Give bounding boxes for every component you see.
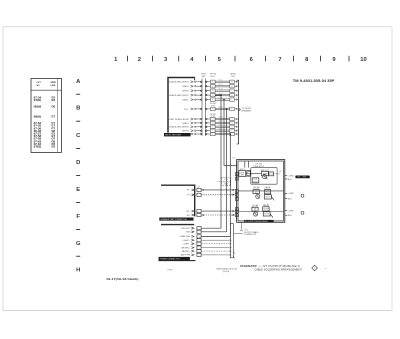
svg-text:TP-1: TP-1 <box>184 109 189 111</box>
J3 pins and labels <box>180 227 194 257</box>
regulator box A1 <box>239 168 246 177</box>
J3 wires <box>201 228 231 256</box>
channel 1 sub-assembly box <box>251 168 277 185</box>
module label bar <box>244 220 273 223</box>
svg-text:MOD: MOD <box>253 181 258 183</box>
bulkhead connector J1/P1 <box>201 73 207 136</box>
svg-text:E: E <box>76 187 80 193</box>
svg-text:67-56: 67-56 <box>219 88 223 90</box>
bias box U2 <box>268 172 273 176</box>
svg-text:SP -: SP - <box>187 215 191 217</box>
svg-text:BLACK-RED (WHT): BLACK-RED (WHT) <box>169 94 188 97</box>
svg-text:CR102: CR102 <box>265 192 270 194</box>
svg-text:G: G <box>76 241 81 247</box>
svg-text:2: 2 <box>138 57 141 63</box>
svg-text:B: B <box>212 86 213 88</box>
svg-text:SP +: SP + <box>186 211 191 213</box>
harness wire v2 <box>224 100 237 166</box>
filter element A2 <box>247 170 251 176</box>
svg-text:+ RED: + RED <box>288 176 295 178</box>
module case ground note <box>240 222 259 236</box>
svg-text:LIGHT -: LIGHT - <box>183 244 191 246</box>
svg-text:CONNECTOR: CONNECTOR <box>244 234 257 236</box>
svg-text:LIGHT SPEED BULB: LIGHT SPEED BULB <box>168 119 189 121</box>
svg-text:OUT 3: OUT 3 <box>264 214 269 216</box>
svg-text:CR103: CR103 <box>263 209 268 211</box>
title end squiggle <box>324 267 326 271</box>
ch3 speaker symbol <box>301 208 304 220</box>
ch1 output + terminal <box>285 176 294 178</box>
P1 wire name labels group B <box>168 119 189 133</box>
svg-text:PRI VOLT: PRI VOLT <box>181 228 191 230</box>
svg-text:67-64: 67-64 <box>219 124 223 126</box>
output box ch3 <box>263 212 273 218</box>
svg-text:(RED): (RED) <box>183 123 189 125</box>
svg-text:MS3106E-14S-2S: MS3106E-14S-2S <box>217 268 238 270</box>
svg-text:67-59: 67-59 <box>219 107 223 109</box>
svg-text:H: H <box>231 123 232 125</box>
svg-text:BLK: BLK <box>288 215 292 217</box>
svg-text:F: F <box>232 109 233 111</box>
output mod box <box>252 178 259 184</box>
figure title line 2 <box>254 268 303 271</box>
test point TP102 <box>252 204 259 212</box>
svg-text:+ RED: + RED <box>288 210 295 212</box>
amp box U1 <box>261 169 269 176</box>
connector P1 cable outline <box>168 78 195 133</box>
svg-text:NO: NO <box>37 85 41 87</box>
svg-text:(WHT): (WHT) <box>182 91 189 93</box>
svg-text:L: L <box>212 134 213 136</box>
svg-text:LINE: LINE <box>51 85 56 87</box>
channel 3 wire <box>238 211 283 213</box>
svg-text:(WHT): (WHT) <box>182 131 189 133</box>
TM number heading <box>293 79 335 83</box>
module input pins <box>235 173 238 217</box>
svg-text:SPEAKER: SPEAKER <box>241 110 251 113</box>
svg-text:67(8): 67(8) <box>34 99 42 102</box>
svg-text:F: F <box>76 214 80 220</box>
bulkhead contact dots <box>200 81 207 135</box>
twisted pair wires <box>215 81 230 135</box>
connector J2 outline <box>161 185 200 216</box>
svg-text:ST OUTPUT MODULE ASSY: ST OUTPUT MODULE ASSY <box>245 220 269 223</box>
diode CR103 <box>263 203 270 211</box>
svg-text:67-55: 67-55 <box>219 84 223 86</box>
diode CR102 <box>264 186 271 194</box>
ch2 speaker symbol <box>301 190 304 202</box>
svg-text:67(8): 67(8) <box>34 146 42 149</box>
svg-text:8: 8 <box>314 268 315 270</box>
output box ch2 <box>264 195 274 201</box>
svg-text:TP -: TP - <box>187 195 191 197</box>
connector J3 label bar <box>159 257 190 261</box>
speaker connector strip <box>230 224 235 259</box>
svg-text:D: D <box>76 160 80 166</box>
terminal board TB1 column <box>210 73 217 135</box>
svg-text:BLACK-RED (WHT): BLACK-RED (WHT) <box>169 126 188 129</box>
output module enclosure <box>237 160 285 223</box>
J3 terminal boxes <box>197 227 201 257</box>
svg-text:METER +: METER + <box>181 247 191 249</box>
ch3 output + terminal <box>285 210 294 212</box>
svg-text:67-63: 67-63 <box>219 121 223 123</box>
strip label leader <box>234 232 243 234</box>
svg-text:BLK: BLK <box>288 198 292 200</box>
svg-text:7: 7 <box>278 57 281 63</box>
svg-text:H: H <box>76 267 80 273</box>
harness wire v3 <box>226 109 228 232</box>
right destination bracket <box>237 80 241 144</box>
svg-text:POWER CONNECTOR: POWER CONNECTOR <box>160 259 180 261</box>
svg-text:(19-16): (19-16) <box>223 271 230 273</box>
svg-text:67-62: 67-62 <box>219 117 223 119</box>
svg-text:B: B <box>76 105 80 111</box>
harness wire v1 <box>215 95 221 228</box>
terminal board TB2 column <box>230 73 236 135</box>
svg-text:TM 9-4931-505-04 35P: TM 9-4931-505-04 35P <box>293 79 335 83</box>
TB pair tag group B <box>210 114 217 118</box>
TB2 pin arrows <box>235 81 238 135</box>
svg-text:CABLE SOLDERING ARRANGEMENT: CABLE SOLDERING ARRANGEMENT <box>254 268 303 271</box>
svg-text:69(9): 69(9) <box>34 116 42 119</box>
module corner designator C1 <box>232 158 235 160</box>
connector P1 label bar <box>164 133 191 137</box>
svg-text:67-65: 67-65 <box>219 132 223 134</box>
TB pair tag row 6 <box>210 103 217 107</box>
svg-text:WIRE: WIRE <box>51 82 57 84</box>
svg-text:E: E <box>212 99 213 101</box>
bracket label TO RIGHT SPEAKER <box>241 108 251 113</box>
svg-text:E: E <box>231 99 232 101</box>
J2 wires to module <box>201 189 235 216</box>
svg-text:LIGHT +: LIGHT + <box>183 240 192 242</box>
svg-text:(RED): (RED) <box>183 100 189 102</box>
svg-text:BLACK-RED (WHT): BLACK-RED (WHT) <box>169 81 188 84</box>
P1 wire name labels group A <box>169 81 189 111</box>
svg-text:H: H <box>212 123 213 125</box>
svg-text:F: F <box>212 109 213 111</box>
ch1 output - terminal <box>285 179 292 181</box>
svg-text:GND: GND <box>186 232 191 234</box>
connector J3 outline <box>159 225 196 261</box>
ch2 output + terminal <box>285 193 294 195</box>
transistor Q102 <box>256 194 260 198</box>
J2 pins and labels <box>186 189 194 217</box>
svg-text:CHAS GND: CHAS GND <box>180 235 191 238</box>
page number <box>106 277 139 281</box>
svg-text:68(8W): 68(8W) <box>34 106 42 109</box>
transistor Q103 <box>254 212 258 216</box>
ch1 feed wires <box>238 161 262 173</box>
test point TP101 <box>253 186 260 194</box>
svg-text:METER -: METER - <box>182 251 191 253</box>
svg-text:(RED): (RED) <box>183 86 189 88</box>
figure title line 1 <box>240 265 300 268</box>
part number note <box>217 268 238 273</box>
zone ruler tick separators <box>128 56 350 62</box>
svg-text:67-58: 67-58 <box>219 97 223 99</box>
svg-text:B: B <box>231 86 232 88</box>
svg-text:NO 1: NO 1 <box>269 174 273 176</box>
svg-text:SPEAKER TEST CONNECTOR: SPEAKER TEST CONNECTOR <box>161 218 188 221</box>
svg-text:TAG: TAG <box>224 183 228 186</box>
FO sheet number <box>168 270 174 272</box>
transistor Q101 <box>263 175 268 180</box>
svg-text:10: 10 <box>360 57 366 63</box>
ch2 output - terminal <box>285 198 292 200</box>
svg-text:W1 P1 TEST SET: W1 P1 TEST SET <box>165 135 182 137</box>
svg-text:19-17(19-18 blank): 19-17(19-18 blank) <box>106 277 139 281</box>
svg-text:FO-8: FO-8 <box>168 270 174 272</box>
svg-text:67-34: 67-34 <box>219 79 223 81</box>
wire number tags <box>219 79 223 133</box>
wires P1 to terminal column <box>196 82 210 134</box>
ch3 output - terminal <box>285 215 292 217</box>
zone ruler numbers 1-10 <box>114 57 367 63</box>
speaker label plate <box>295 173 309 184</box>
svg-text:CKT: CKT <box>37 82 42 84</box>
P1 pin contacts <box>191 81 197 135</box>
harness junction dots <box>220 94 231 135</box>
svg-text:+ RED: + RED <box>288 193 295 195</box>
svg-text:OUT 2: OUT 2 <box>265 197 270 199</box>
connector J2 label bar <box>159 218 193 222</box>
title diamond mark <box>312 265 318 271</box>
svg-text:~: ~ <box>324 267 326 271</box>
wire list table <box>31 78 61 152</box>
zone letters A-H <box>76 79 81 273</box>
dashed link ch1 <box>274 171 282 174</box>
zone letter separators <box>76 94 80 256</box>
module title <box>254 163 265 168</box>
svg-text:ANT PWR: ANT PWR <box>181 254 191 257</box>
svg-text:BLK: BLK <box>288 179 292 181</box>
harness wire v4 <box>229 134 231 236</box>
svg-text:68-36: 68-36 <box>219 128 223 130</box>
J2 terminal boxes <box>197 188 201 216</box>
channel 2 wire <box>238 190 283 192</box>
CT output tag note <box>217 177 231 185</box>
